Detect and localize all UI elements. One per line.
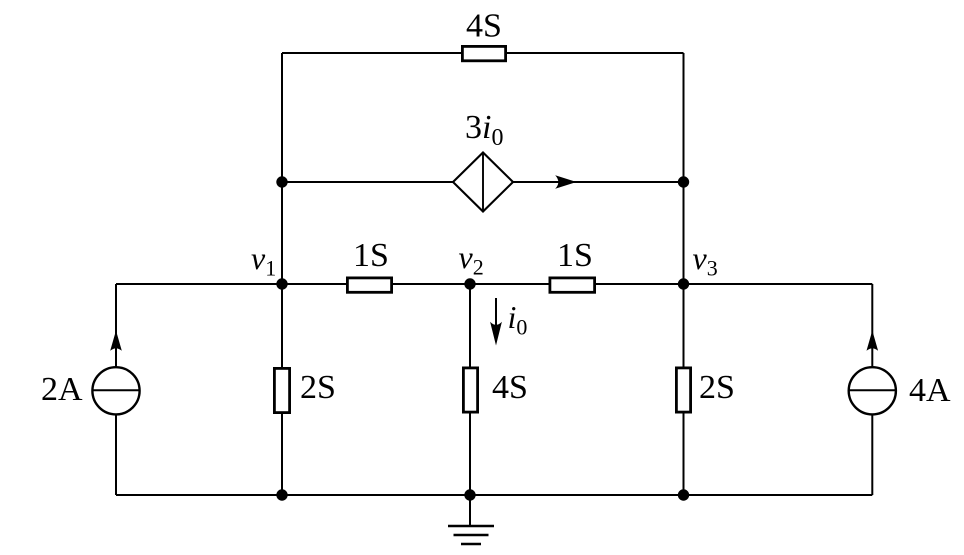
node v1 dot: [276, 278, 287, 289]
svg-text:1S: 1S: [353, 237, 389, 274]
wire left vertical of top loop: [281, 53, 283, 284]
wire top horizontal: [282, 52, 684, 54]
wire dependent-source branch: [282, 181, 684, 183]
current annotation arrow i0 (pointing down at v2): [490, 298, 502, 346]
wire v2 vertical branch: [469, 284, 471, 495]
wire right source branch: [871, 284, 873, 495]
svg-text:1S: 1S: [557, 237, 593, 274]
resistor 2S (right vertical): [676, 368, 690, 412]
resistor 4S (middle vertical): [463, 368, 477, 412]
svg-text:i0: i0: [508, 299, 528, 340]
wire right vertical of top loop: [683, 53, 685, 284]
arrowhead of dependent source (on wire, pointing right): [555, 175, 576, 189]
line inside 2A source: [92, 389, 139, 391]
wire v3 vertical branch: [683, 284, 685, 495]
svg-text:4S: 4S: [466, 8, 502, 45]
bottom junction dot under v1: [276, 489, 287, 500]
current source 4A (right circle): [849, 367, 896, 414]
wire bottom horizontal: [116, 494, 872, 496]
svg-text:2A: 2A: [41, 371, 83, 408]
node v2 dot: [464, 278, 475, 289]
svg-text:4S: 4S: [492, 369, 528, 406]
wire middle horizontal (node row): [116, 283, 872, 285]
arrowhead of 2A source (pointing up): [110, 331, 122, 351]
resistor 1S (right, v2-v3): [550, 278, 595, 292]
line inside 4A source: [849, 389, 896, 391]
node junction dot (right, dep source): [678, 176, 689, 187]
bottom junction dot under v2: [464, 489, 475, 500]
svg-text:v2: v2: [459, 239, 484, 280]
current source 2A (left circle): [92, 367, 139, 414]
svg-text:4A: 4A: [909, 372, 951, 409]
resistor 4S (top): [462, 46, 505, 60]
svg-text:v1: v1: [251, 240, 276, 281]
resistor 1S (left, v1-v2): [347, 278, 391, 292]
svg-text:v3: v3: [693, 240, 718, 281]
bottom junction dot under v3: [678, 489, 689, 500]
arrowhead of 4A source (pointing up): [867, 331, 879, 351]
wire v1 vertical branch: [281, 284, 283, 495]
svg-text:3i0: 3i0: [465, 109, 503, 151]
dependent current source U1 (diamond 3i0): [453, 153, 513, 212]
resistor 2S (left vertical): [274, 368, 289, 412]
node v3 dot: [678, 278, 689, 289]
svg-text:2S: 2S: [699, 369, 735, 406]
ground: [448, 495, 494, 544]
node junction dot (left, dep source): [276, 176, 287, 187]
wire left source branch: [115, 284, 117, 495]
svg-text:2S: 2S: [300, 369, 336, 406]
